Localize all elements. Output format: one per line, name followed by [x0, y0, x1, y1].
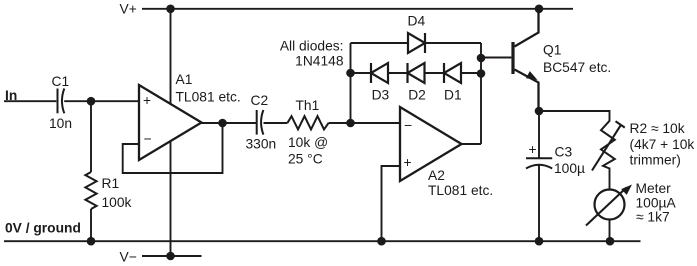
- svg-text:25 °C: 25 °C: [288, 151, 323, 166]
- svg-text:V−: V−: [120, 249, 137, 264]
- svg-text:R1: R1: [102, 176, 120, 191]
- svg-text:BC547 etc.: BC547 etc.: [543, 60, 611, 75]
- svg-text:+: +: [403, 155, 411, 170]
- svg-text:Q1: Q1: [543, 42, 561, 57]
- svg-text:TL081 etc.: TL081 etc.: [176, 90, 241, 105]
- svg-text:+: +: [528, 142, 536, 157]
- svg-text:C2: C2: [251, 93, 269, 108]
- svg-text:1N4148: 1N4148: [295, 54, 344, 69]
- svg-text:In: In: [5, 88, 17, 103]
- svg-text:≈ 1k7: ≈ 1k7: [636, 210, 670, 225]
- svg-text:100µ: 100µ: [554, 161, 585, 176]
- svg-text:D1: D1: [444, 88, 462, 103]
- svg-text:Meter: Meter: [636, 181, 672, 196]
- svg-text:10n: 10n: [49, 116, 72, 131]
- svg-text:D4: D4: [408, 14, 426, 29]
- svg-text:A1: A1: [176, 72, 193, 87]
- svg-text:D2: D2: [408, 88, 426, 103]
- svg-text:C1: C1: [52, 74, 70, 89]
- svg-text:R2 ≈ 10k: R2 ≈ 10k: [630, 121, 685, 136]
- svg-text:100µA: 100µA: [636, 195, 677, 210]
- svg-text:trimmer): trimmer): [630, 153, 681, 168]
- svg-text:−: −: [404, 118, 412, 133]
- svg-text:D3: D3: [372, 88, 390, 103]
- svg-text:C3: C3: [555, 145, 573, 160]
- svg-text:V+: V+: [120, 2, 137, 17]
- svg-text:(4k7 + 10k: (4k7 + 10k: [630, 137, 695, 152]
- svg-text:Th1: Th1: [296, 98, 320, 113]
- svg-text:All diodes:: All diodes:: [280, 39, 344, 54]
- svg-text:−: −: [143, 131, 151, 146]
- svg-text:0V / ground: 0V / ground: [5, 220, 81, 235]
- svg-text:100k: 100k: [102, 195, 132, 210]
- svg-text:10k @: 10k @: [288, 135, 328, 150]
- svg-text:330n: 330n: [246, 136, 277, 151]
- svg-text:A2: A2: [428, 168, 445, 183]
- svg-text:TL081 etc.: TL081 etc.: [428, 183, 493, 198]
- svg-text:+: +: [143, 93, 151, 108]
